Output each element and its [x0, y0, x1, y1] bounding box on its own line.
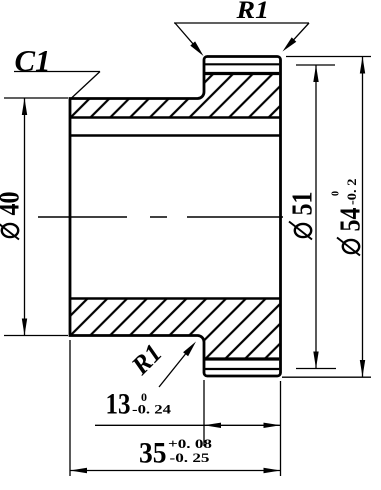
svg-text:C1: C1	[15, 43, 51, 78]
dimension Ø51 extension top	[296, 64, 335, 66]
dimension Ø54 extension top	[286, 56, 371, 58]
dimension 35 extension line left	[69, 340, 71, 476]
dimension Ø51 extension bottom	[296, 368, 336, 370]
gear root line top	[204, 72, 279, 75]
part outline	[70, 57, 281, 377]
dimension Ø54 line	[362, 57, 364, 378]
arrow Ø54 up	[360, 57, 365, 74]
gear pitch line top	[204, 63, 279, 65]
arrow R1 top-right	[283, 37, 297, 51]
arrow R1 top-left	[190, 41, 203, 56]
leader R1 bottom diagonal	[159, 353, 186, 387]
dimension Ø40 line	[24, 98, 26, 336]
svg-text:0: 0	[331, 191, 342, 196]
centerline axis	[38, 216, 283, 218]
arrow Ø51 up	[313, 65, 318, 82]
svg-text:51: 51	[288, 192, 319, 216]
hatch lower wall	[70, 299, 281, 360]
dimension 35 extension line right	[280, 381, 282, 476]
svg-text:54: 54	[336, 208, 367, 232]
arrow Ø51 down	[313, 352, 318, 369]
leader C1 diagonal	[71, 72, 100, 99]
leader R1 top-right diagonal	[288, 23, 309, 46]
hatch upper wall	[70, 73, 281, 118]
bore top line	[70, 134, 281, 137]
arrow Ø40 down	[22, 319, 27, 336]
arrow 13 right	[264, 423, 281, 428]
gear pitch line bottom	[204, 368, 279, 370]
leader R1 top-left diagonal	[175, 23, 196, 47]
svg-text:R1: R1	[235, 0, 269, 24]
svg-text:35: 35	[139, 438, 167, 470]
dimension 13 extension line left	[203, 380, 205, 446]
bore bottom line	[70, 297, 281, 300]
keyway bottom line	[70, 116, 281, 118]
dimension Ø54 extension bottom	[282, 376, 371, 378]
dimension Ø40 extension bottom	[4, 335, 68, 337]
svg-text:+0. 08: +0. 08	[168, 436, 213, 451]
dimension 13 line	[95, 424, 281, 426]
dimension Ø40 extension top	[4, 97, 68, 99]
svg-text:13: 13	[106, 389, 131, 421]
gear root line bottom	[204, 357, 279, 360]
svg-text:40: 40	[0, 192, 26, 216]
label R1 bottom	[125, 338, 168, 381]
arrow Ø54 down	[360, 360, 365, 377]
arrow 35 left	[70, 468, 87, 473]
arrow R1 bottom	[183, 342, 196, 357]
leader C1 underline	[14, 71, 100, 73]
svg-text:-0. 24: -0. 24	[132, 402, 172, 417]
svg-text:-0. 2: -0. 2	[345, 179, 359, 206]
label Ø40	[0, 192, 26, 240]
arrow 35 right	[264, 468, 281, 473]
label Ø51	[288, 192, 319, 240]
dimension 35 line	[70, 470, 281, 472]
label Ø54 with tolerance	[331, 179, 367, 256]
arrow Ø40 up	[22, 98, 27, 115]
leader R1 top underline	[174, 22, 309, 24]
svg-text:-0. 25: -0. 25	[170, 450, 211, 465]
dimension Ø51 line	[315, 65, 317, 369]
arrow 13 left	[204, 423, 221, 428]
